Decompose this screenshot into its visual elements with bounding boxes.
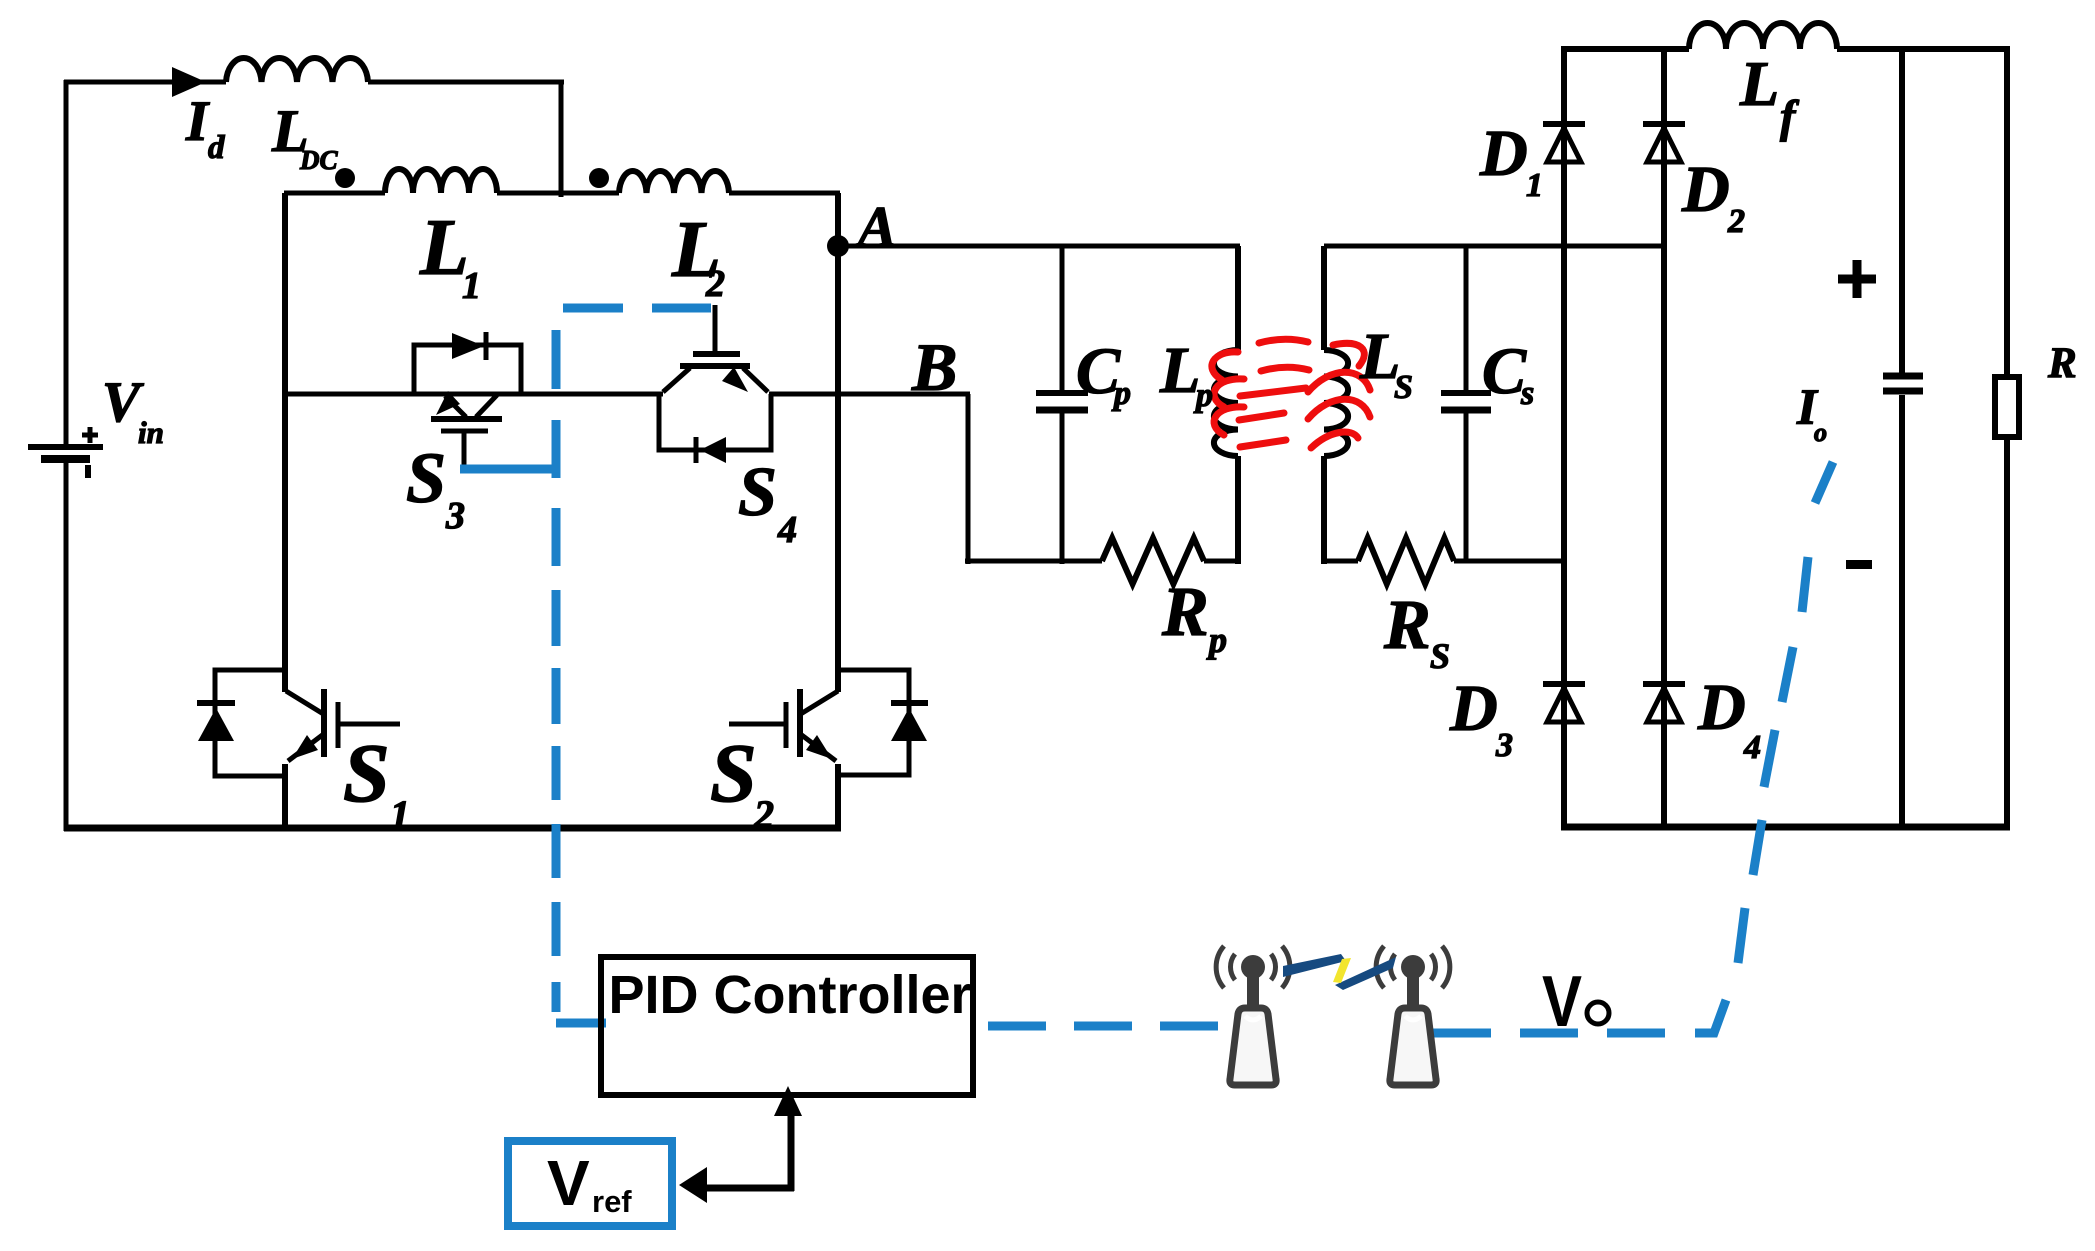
svg-text:2: 2 [705, 263, 725, 305]
svg-text:S: S [710, 727, 757, 820]
svg-text:D: D [1449, 672, 1498, 745]
svg-text:R: R [2047, 340, 2077, 387]
svg-text:4: 4 [1743, 729, 1761, 766]
svg-text:S: S [1430, 636, 1450, 676]
svg-text:R: R [1161, 574, 1209, 651]
svg-text:s: s [1520, 375, 1534, 412]
svg-text:p: p [1111, 375, 1131, 412]
svg-text:p: p [1193, 377, 1213, 414]
svg-text:in: in [138, 415, 164, 450]
svg-text:D: D [1681, 153, 1730, 226]
svg-text:S: S [343, 727, 390, 820]
svg-text:A: A [855, 194, 897, 259]
svg-text:DC: DC [299, 145, 338, 175]
svg-text:3: 3 [445, 495, 465, 537]
svg-text:o: o [1814, 418, 1827, 447]
svg-text:D: D [1479, 117, 1528, 190]
svg-text:ref: ref [592, 1184, 632, 1219]
svg-text:L: L [1159, 334, 1200, 407]
svg-text:1: 1 [1526, 167, 1543, 204]
svg-text:4: 4 [777, 509, 797, 551]
svg-text:1: 1 [462, 265, 481, 307]
svg-text:V: V [547, 1147, 590, 1219]
svg-text:1: 1 [390, 792, 410, 837]
svg-text:I: I [185, 90, 210, 153]
svg-text:p: p [1206, 620, 1227, 660]
svg-text:d: d [208, 130, 225, 166]
svg-text:PID Controller: PID Controller [608, 965, 971, 1025]
svg-text:S: S [1394, 369, 1413, 406]
svg-text:B: B [911, 329, 957, 405]
svg-text:S: S [406, 438, 446, 518]
svg-text:S: S [738, 454, 777, 531]
svg-text:2: 2 [753, 792, 774, 837]
svg-text:L: L [1739, 48, 1779, 119]
svg-text:R: R [1383, 587, 1431, 664]
svg-text:D: D [1697, 671, 1746, 744]
svg-text:3: 3 [1495, 727, 1513, 764]
svg-text:V: V [1542, 962, 1582, 1042]
svg-text:2: 2 [1727, 203, 1745, 240]
